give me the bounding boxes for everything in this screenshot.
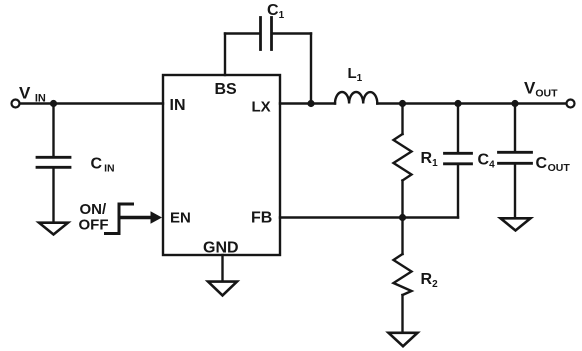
svg-text:R1: R1	[421, 150, 439, 169]
svg-text:VIN: VIN	[19, 84, 46, 105]
svg-text:IN: IN	[170, 97, 186, 114]
svg-text:C4: C4	[478, 152, 496, 171]
svg-text:LX: LX	[252, 99, 271, 116]
svg-text:GND: GND	[203, 240, 239, 257]
svg-text:C1: C1	[267, 2, 285, 21]
svg-text:R2: R2	[421, 271, 439, 290]
svg-text:L1: L1	[348, 65, 363, 84]
svg-text:EN: EN	[170, 210, 191, 227]
svg-text:COUT: COUT	[536, 155, 571, 174]
svg-text:CIN: CIN	[91, 156, 115, 175]
svg-text:VOUT: VOUT	[524, 79, 558, 100]
svg-text:ON/: ON/	[80, 201, 108, 218]
svg-text:OFF: OFF	[79, 217, 109, 234]
svg-text:FB: FB	[251, 210, 272, 227]
svg-text:BS: BS	[215, 81, 238, 98]
